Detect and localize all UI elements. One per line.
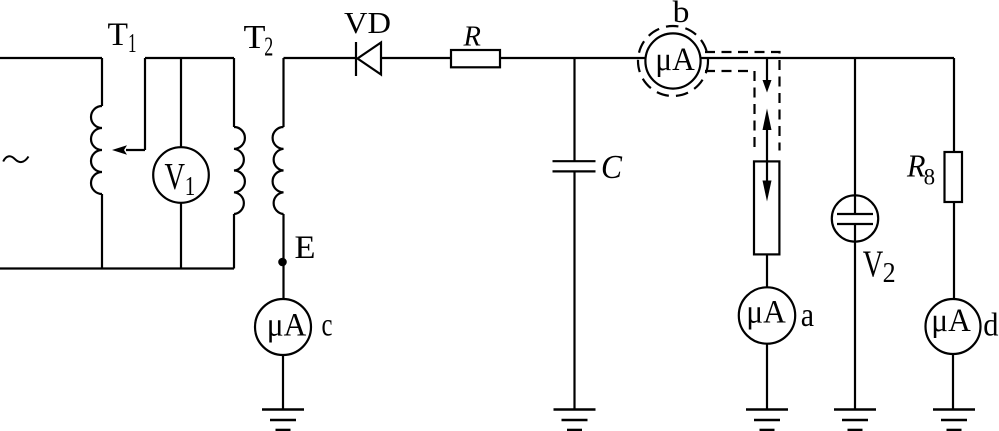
svg-text:a: a xyxy=(801,297,814,334)
svg-text:b: b xyxy=(673,0,690,29)
svg-text:μA: μA xyxy=(931,303,971,339)
svg-text:c: c xyxy=(322,307,333,343)
svg-text:R: R xyxy=(463,21,481,52)
svg-text:8: 8 xyxy=(924,165,936,190)
svg-text:1: 1 xyxy=(185,171,196,201)
svg-text:d: d xyxy=(983,308,998,344)
svg-text:μA: μA xyxy=(267,307,307,343)
svg-text:V: V xyxy=(165,156,186,198)
svg-text:μA: μA xyxy=(655,42,695,78)
svg-text:T: T xyxy=(108,17,129,53)
svg-text:C: C xyxy=(601,149,622,186)
svg-text:1: 1 xyxy=(128,28,137,58)
svg-text:2: 2 xyxy=(264,31,273,61)
svg-text:μA: μA xyxy=(746,295,786,331)
svg-text:2: 2 xyxy=(883,258,896,289)
svg-text:V: V xyxy=(863,243,884,285)
svg-text:E: E xyxy=(295,230,316,266)
svg-text:T: T xyxy=(244,19,266,56)
svg-text:VD: VD xyxy=(344,5,391,40)
